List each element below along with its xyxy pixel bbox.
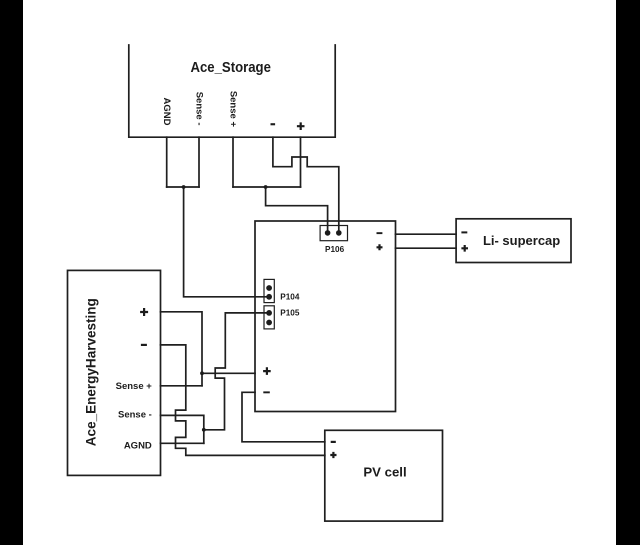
minus U1 left -: [263, 391, 270, 393]
plus Li +: [461, 245, 468, 252]
plus EH +: [140, 308, 148, 316]
block Ace_Storage: [129, 45, 335, 137]
svg-text:Ace_EnergyHarvesting: Ace_EnergyHarvesting: [83, 298, 99, 446]
svg-text:Li- supercap: Li- supercap: [483, 233, 560, 248]
minus Storage -: [271, 123, 276, 125]
wire EH AGND: [161, 442, 204, 444]
plus Storage +: [297, 122, 305, 130]
wire Storage Sense- down: [198, 137, 200, 187]
connector P106: [320, 226, 347, 241]
wire U1 BAT+ to Li-supercap +: [396, 247, 457, 249]
wire bundle to P106 pin1: [266, 187, 328, 233]
pin P106.2: [336, 230, 342, 236]
wire Storage + down: [300, 137, 302, 187]
wire AGND/Sense- bundle: [167, 186, 199, 188]
svg-text:Sense -: Sense -: [194, 92, 205, 126]
pin P106.1: [325, 230, 331, 236]
block Ace_EnergyHarvesting: [68, 270, 161, 475]
junction EH Sense-/AGND node: [202, 428, 206, 432]
minus Li -: [461, 231, 467, 233]
plus U1 left +: [263, 367, 271, 375]
pin P104.1: [266, 285, 272, 291]
junction Sense+/+: [264, 185, 268, 189]
svg-text:P105: P105: [280, 309, 300, 318]
block Li-supercap: [456, 219, 571, 263]
minus PV -: [331, 441, 336, 443]
pin P105.2: [266, 320, 272, 326]
junction EH+ node: [200, 371, 204, 375]
wire U1 - to PV -: [242, 392, 325, 442]
wire Storage AGND down: [166, 137, 168, 187]
plus PV +: [330, 452, 336, 458]
svg-text:Sense -: Sense -: [118, 410, 152, 421]
wire EH + down: [161, 312, 203, 386]
svg-text:P106: P106: [325, 245, 345, 254]
wire bundle to P104 pin2: [184, 187, 269, 297]
connector P105: [264, 306, 274, 329]
minus U1 right -: [377, 232, 383, 234]
wire node to U1 +: [202, 372, 255, 374]
wire Sense+/+ bundle: [233, 186, 301, 188]
wire EH Sense-: [161, 415, 204, 443]
svg-text:AGND: AGND: [161, 98, 172, 126]
svg-text:Ace_Storage: Ace_Storage: [190, 60, 271, 76]
pin P104.2: [266, 294, 272, 300]
minus EH -: [141, 344, 147, 346]
junction AGND/Sense-: [182, 185, 186, 189]
svg-text:PV cell: PV cell: [363, 465, 406, 480]
connector P104: [264, 279, 274, 302]
plus U1 right +: [377, 244, 383, 250]
svg-text:P104: P104: [280, 293, 300, 302]
wire node to P105 pin1 with jog: [204, 313, 269, 430]
svg-text:AGND: AGND: [124, 441, 152, 452]
wire U1 BAT- to Li-supercap -: [396, 233, 457, 235]
block PV cell: [325, 430, 443, 521]
wire EH - to PV + with jogs: [161, 345, 325, 456]
wire Storage Sense+ down: [232, 137, 234, 187]
block U1 main board: [255, 221, 396, 412]
svg-text:Sense +: Sense +: [116, 381, 153, 392]
wire EH Sense+: [161, 385, 203, 387]
pin P105.1: [266, 310, 272, 316]
svg-text:Sense +: Sense +: [228, 91, 239, 128]
wire Storage - to P106 pin2 with hop: [273, 137, 339, 233]
